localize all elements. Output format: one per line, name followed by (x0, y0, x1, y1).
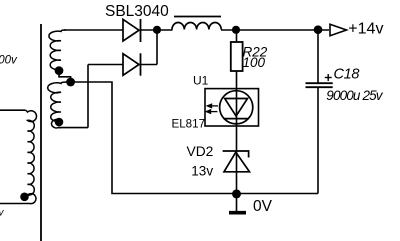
svg-text:U1: U1 (193, 74, 209, 88)
svg-text:+14v: +14v (348, 20, 383, 37)
svg-text:VD2: VD2 (187, 144, 214, 159)
svg-text:EL817: EL817 (172, 117, 206, 130)
svg-text:C18: C18 (334, 67, 360, 83)
svg-text:SBL3040: SBL3040 (105, 3, 169, 20)
svg-text:0v: 0v (0, 208, 5, 219)
svg-text:300v: 300v (0, 55, 18, 67)
svg-text:9000u 25v: 9000u 25v (326, 88, 384, 103)
svg-text:100: 100 (243, 55, 266, 70)
svg-text:0V: 0V (253, 198, 273, 215)
svg-text:13v: 13v (191, 164, 213, 179)
